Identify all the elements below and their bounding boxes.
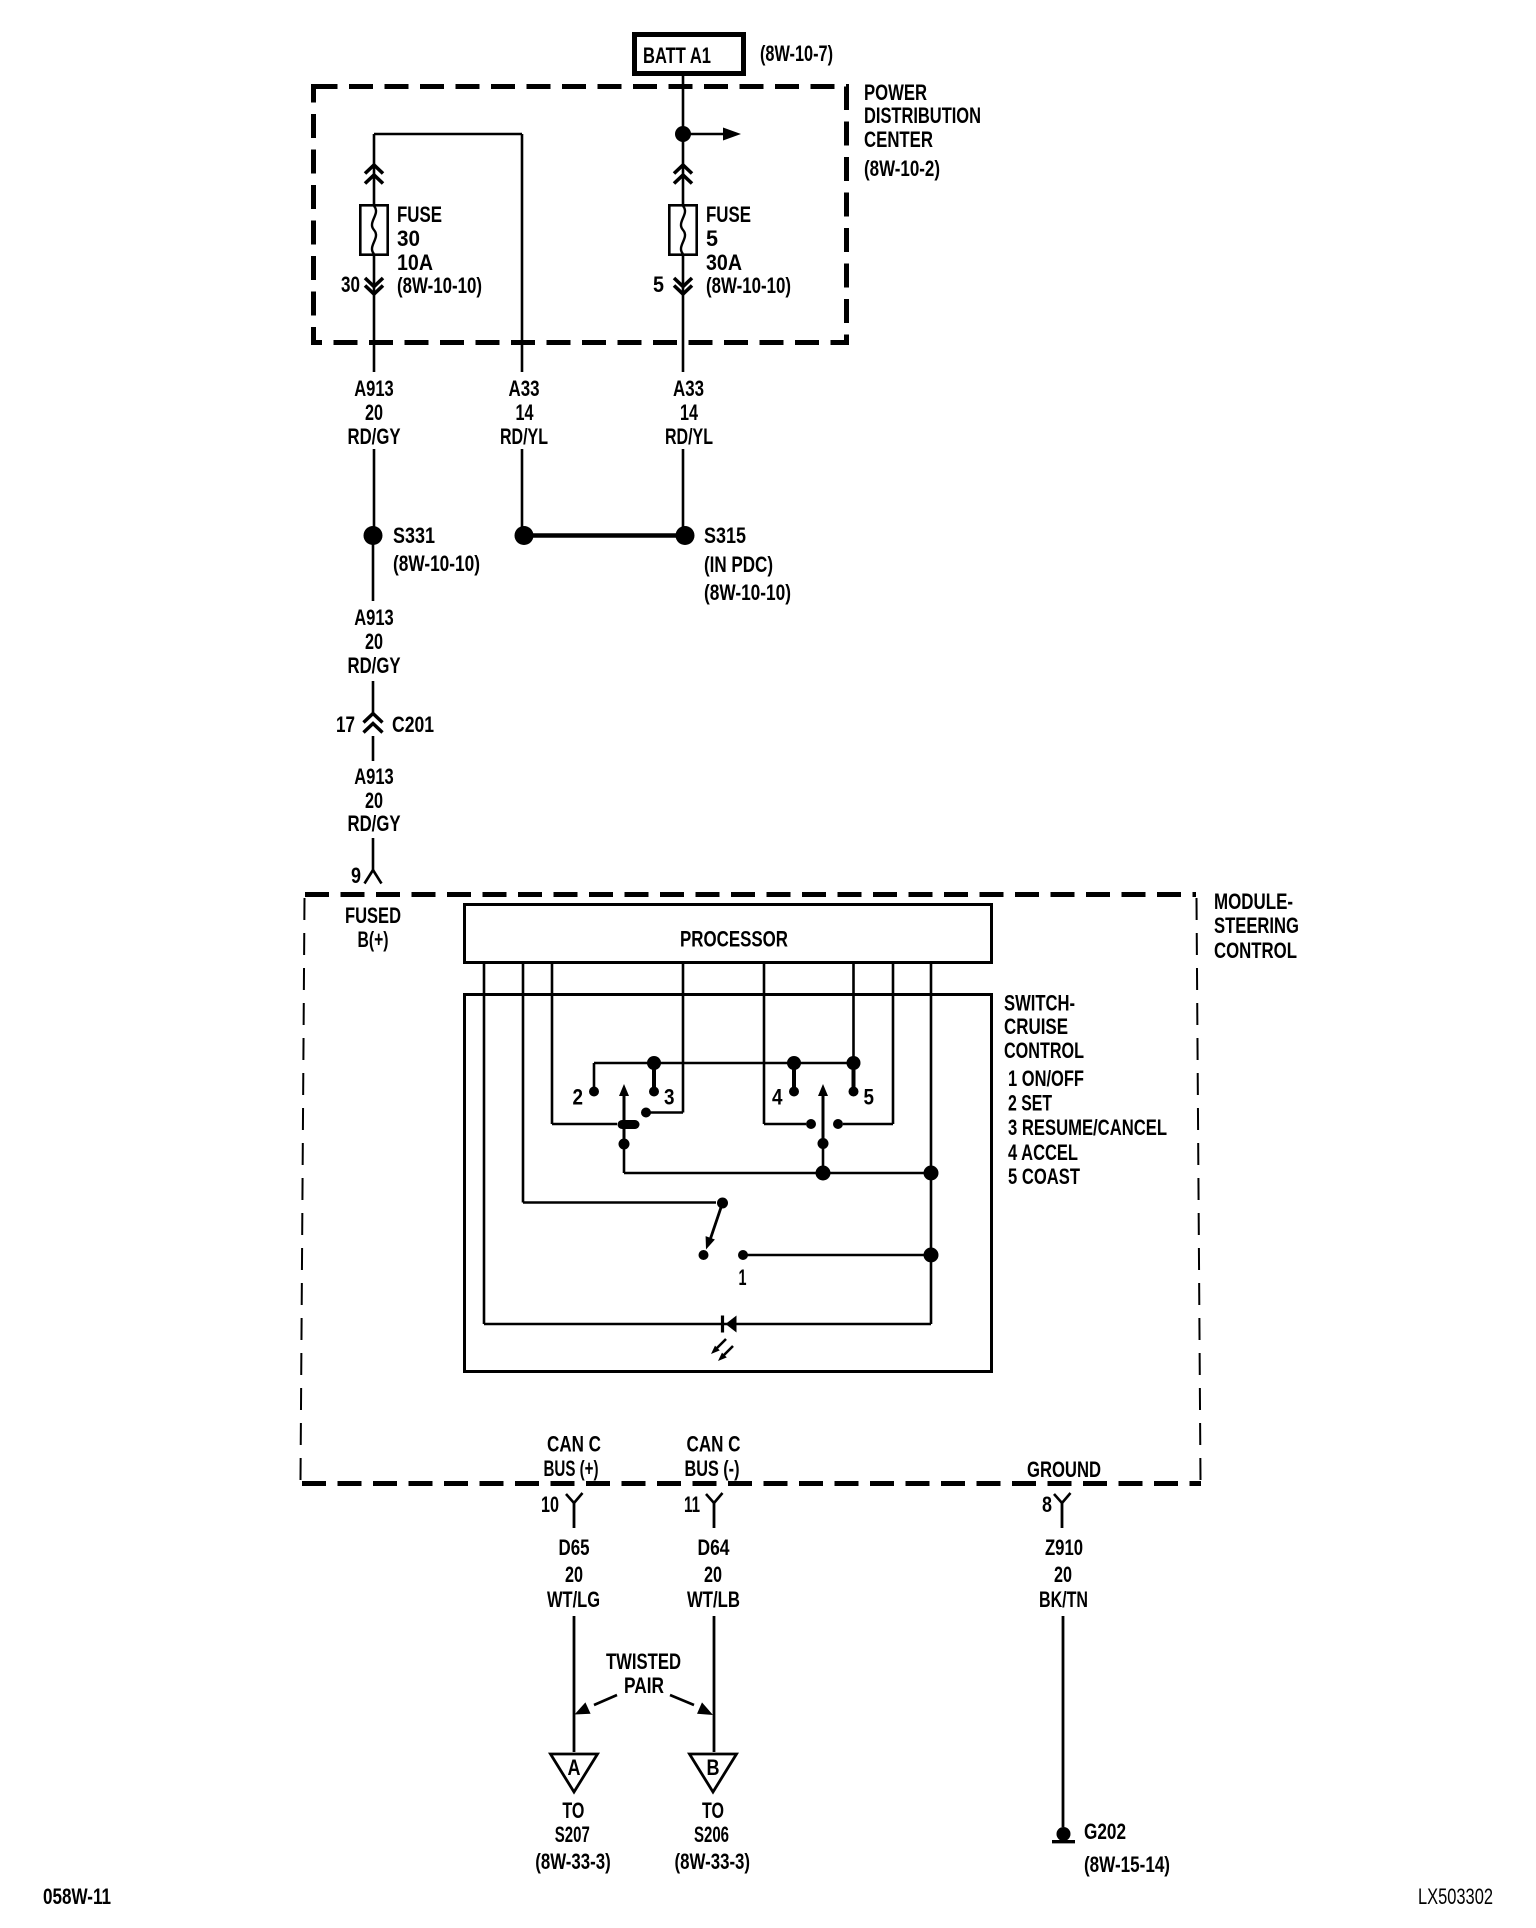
svg-text:14: 14 xyxy=(680,400,699,425)
label S315 (IN PDC) (8W-10-10) xyxy=(704,523,791,605)
svg-text:30A: 30A xyxy=(706,250,742,275)
wire on/off feed xyxy=(523,1201,716,1204)
wire down to splice S315 xyxy=(682,449,685,528)
svg-text:G202: G202 xyxy=(1084,1819,1126,1844)
wire on/off to return xyxy=(746,1254,931,1257)
svg-text:(8W-10-10): (8W-10-10) xyxy=(393,551,480,576)
wire below fuse 5 xyxy=(682,256,685,372)
svg-text:D65: D65 xyxy=(559,1535,590,1560)
svg-text:5: 5 xyxy=(653,272,664,297)
svg-text:2 SET: 2 SET xyxy=(1008,1091,1052,1116)
svg-text:FUSE: FUSE xyxy=(397,202,442,227)
svg-text:058W-11: 058W-11 xyxy=(43,1884,111,1909)
wire label A913 20 RD/GY (below C201) xyxy=(348,764,401,836)
svg-text:A: A xyxy=(568,1755,581,1780)
wire splice bus to S315 xyxy=(524,533,685,538)
svg-text:CONTROL: CONTROL xyxy=(1214,938,1297,963)
svg-text:CAN C: CAN C xyxy=(687,1432,741,1457)
svg-text:20: 20 xyxy=(704,1562,722,1587)
svg-text:20: 20 xyxy=(365,400,383,425)
svg-text:S206: S206 xyxy=(694,1822,729,1847)
accel contact terminal xyxy=(806,1119,816,1129)
svg-text:S315: S315 xyxy=(704,523,746,548)
svg-text:A913: A913 xyxy=(354,764,394,789)
wire switch return bus xyxy=(624,1172,931,1175)
wire accel/coast right feed xyxy=(843,1123,893,1126)
svg-text:10: 10 xyxy=(541,1492,559,1517)
label G202 (8W-15-14) xyxy=(1084,1819,1170,1877)
coast contact terminal xyxy=(833,1119,843,1129)
wire processor pin to accel/coast right contact xyxy=(892,964,895,1124)
twisted pair right arrow xyxy=(670,1695,713,1715)
wire contact 5 drop xyxy=(852,1063,856,1087)
svg-text:4 ACCEL: 4 ACCEL xyxy=(1008,1140,1078,1165)
wire CAN- down to triangle B xyxy=(713,1616,716,1752)
contact 4 terminal xyxy=(789,1087,799,1097)
fuse 5 value labels xyxy=(706,202,791,298)
module connector fork pin 8 xyxy=(1054,1493,1071,1528)
svg-text:(8W-10-10): (8W-10-10) xyxy=(704,580,791,605)
LED D1 diode xyxy=(723,1316,737,1333)
wire down to fuse 30 xyxy=(373,134,376,204)
wire contact 3 drop xyxy=(652,1063,656,1087)
fuse 5 (30A) xyxy=(669,205,696,254)
switch SW3 on/off arm arrow xyxy=(706,1203,723,1250)
svg-text:A913: A913 xyxy=(354,605,394,630)
wire processor pin to resume contact xyxy=(682,964,685,1113)
wire LED anode line xyxy=(484,1323,931,1326)
svg-text:20: 20 xyxy=(365,788,383,813)
svg-text:20: 20 xyxy=(1054,1562,1072,1587)
switch SW1 set/resume wiper bar xyxy=(618,1120,640,1129)
svg-text:5: 5 xyxy=(864,1085,875,1110)
svg-text:14: 14 xyxy=(516,400,535,425)
node return bus at SW2 xyxy=(816,1166,831,1181)
svg-text:BK/TN: BK/TN xyxy=(1039,1587,1088,1612)
svg-text:CENTER: CENTER xyxy=(864,127,933,152)
wire label A913 20 RD/GY (from fuse 30) xyxy=(348,376,401,449)
wire down to splice S331 xyxy=(373,449,376,527)
ground G202 symbol xyxy=(1052,1827,1075,1842)
svg-text:RD/YL: RD/YL xyxy=(665,424,713,449)
node on return line xyxy=(924,1248,939,1263)
label TO S207 (8W-33-3) xyxy=(535,1798,611,1874)
wire resume contact to processor xyxy=(649,1111,683,1114)
contact 3 terminal xyxy=(649,1087,659,1097)
wire accel/coast left feed xyxy=(764,1123,806,1126)
svg-text:TO: TO xyxy=(562,1798,584,1823)
svg-text:11: 11 xyxy=(684,1492,700,1517)
wire processor pin to common return xyxy=(930,964,933,1324)
node return bus to processor xyxy=(924,1166,939,1181)
svg-text:C201: C201 xyxy=(392,712,434,737)
wire SW2 arm to return bus xyxy=(822,1143,825,1173)
node CAN C BUS (-) label xyxy=(685,1432,741,1482)
switch SW2 accel/coast arm arrow xyxy=(818,1084,828,1142)
svg-text:MODULE-: MODULE- xyxy=(1214,889,1293,914)
node junction above contact 3 xyxy=(647,1056,661,1070)
svg-text:20: 20 xyxy=(565,1562,583,1587)
node FUSED B(+) xyxy=(345,903,401,952)
wire down to connector C201 xyxy=(372,681,375,713)
svg-text:5: 5 xyxy=(706,226,718,251)
wire label A33 14 RD/YL (from fuse 5) xyxy=(665,376,713,449)
splice S315 xyxy=(676,526,695,545)
svg-text:(8W-10-7): (8W-10-7) xyxy=(760,41,833,66)
wire below fuse 30 xyxy=(373,256,376,372)
label TO S206 (8W-33-3) xyxy=(675,1798,751,1874)
connector C201 chevrons pin 17 xyxy=(364,714,383,733)
svg-text:30: 30 xyxy=(397,226,420,251)
battery feed box BATT A1 xyxy=(635,35,744,74)
svg-text:RD/GY: RD/GY xyxy=(348,653,401,678)
svg-text:TWISTED: TWISTED xyxy=(606,1649,681,1674)
processor box U1 xyxy=(465,905,992,963)
svg-text:9: 9 xyxy=(351,863,361,888)
svg-text:LX503302: LX503302 xyxy=(1418,1884,1493,1909)
on/off lower contact xyxy=(699,1250,709,1260)
svg-text:CRUISE: CRUISE xyxy=(1004,1014,1068,1039)
chevrons below fuse 30 xyxy=(365,278,383,294)
svg-text:10A: 10A xyxy=(397,250,433,275)
wire processor pin to LED feed xyxy=(483,964,486,1324)
wire processor pin to coast node xyxy=(852,964,855,1058)
svg-text:FUSED: FUSED xyxy=(345,903,401,928)
module connector fork pin 11 xyxy=(706,1493,723,1528)
svg-text:STEERING: STEERING xyxy=(1214,913,1299,938)
wire processor pin to set/resume common xyxy=(551,964,554,1124)
svg-text:A33: A33 xyxy=(673,376,704,401)
svg-text:B(+): B(+) xyxy=(358,927,389,952)
node below SW1 wiper xyxy=(619,1139,630,1150)
wire top bus of switch contacts xyxy=(594,1062,854,1065)
svg-text:BUS (-): BUS (-) xyxy=(685,1456,740,1481)
svg-text:B: B xyxy=(707,1755,720,1780)
svg-text:CAN C: CAN C xyxy=(547,1432,601,1457)
svg-text:(8W-33-3): (8W-33-3) xyxy=(675,1849,751,1874)
svg-text:WT/LB: WT/LB xyxy=(687,1587,740,1612)
node junction above contact 5 xyxy=(847,1056,861,1070)
svg-text:D64: D64 xyxy=(698,1535,731,1560)
wire processor pin to on/off switch xyxy=(522,964,525,1203)
label TWISTED PAIR xyxy=(606,1649,681,1698)
wire below C201 xyxy=(372,736,375,761)
svg-text:A913: A913 xyxy=(354,376,394,401)
wire below S331 xyxy=(372,544,375,601)
wire label D65 20 WT/LG xyxy=(547,1535,600,1612)
wire label A913 20 RD/GY (below S331) xyxy=(348,605,401,678)
wire contact 4 drop xyxy=(792,1063,796,1087)
svg-text:PAIR: PAIR xyxy=(624,1673,664,1698)
node CAN C BUS (+) label xyxy=(544,1432,602,1482)
svg-text:8: 8 xyxy=(1042,1492,1052,1517)
svg-text:PROCESSOR: PROCESSOR xyxy=(680,927,788,952)
wire label A33 14 RD/YL (middle) xyxy=(500,376,548,449)
svg-text:RD/GY: RD/GY xyxy=(348,424,401,449)
module connector fork pin 10 xyxy=(566,1493,583,1528)
wire down to mid splice node xyxy=(521,449,524,528)
svg-text:S207: S207 xyxy=(555,1822,590,1847)
svg-text:WT/LG: WT/LG xyxy=(547,1587,600,1612)
svg-text:(8W-33-3): (8W-33-3) xyxy=(535,1849,611,1874)
fuse 30 (10A) xyxy=(360,205,387,254)
svg-text:DISTRIBUTION: DISTRIBUTION xyxy=(864,103,981,128)
svg-text:5 COAST: 5 COAST xyxy=(1008,1164,1080,1189)
power distribution center dashed box xyxy=(314,87,847,343)
on/off switch top contact xyxy=(717,1198,728,1209)
svg-text:20: 20 xyxy=(365,629,383,654)
svg-text:TO: TO xyxy=(702,1798,724,1823)
contact 5 terminal xyxy=(849,1087,859,1097)
twisted pair left arrow xyxy=(575,1695,618,1715)
label MODULE-STEERING CONTROL xyxy=(1214,889,1299,963)
svg-text:1: 1 xyxy=(739,1265,747,1290)
svg-text:(8W-15-14): (8W-15-14) xyxy=(1084,1852,1170,1877)
wire SW1 wiper to return bus xyxy=(623,1144,626,1173)
arrow to other circuits xyxy=(683,128,741,141)
svg-text:S331: S331 xyxy=(393,523,435,548)
resume/cancel contact terminal xyxy=(641,1108,651,1118)
svg-text:Z910: Z910 xyxy=(1045,1535,1083,1560)
chevrons above fuse 5 xyxy=(674,165,692,184)
svg-text:A33: A33 xyxy=(509,376,540,401)
off-page connector B xyxy=(690,1754,737,1792)
svg-text:(8W-10-2): (8W-10-2) xyxy=(864,156,940,181)
wire CAN+ down to triangle A xyxy=(573,1616,576,1752)
wire set/resume common feed xyxy=(552,1123,617,1126)
svg-text:17: 17 xyxy=(336,712,355,737)
label S331 (8W-10-10) xyxy=(393,523,480,576)
svg-text:30: 30 xyxy=(341,272,360,297)
wire down to module pin 9 xyxy=(372,838,375,871)
svg-text:3: 3 xyxy=(664,1085,675,1110)
chevrons above fuse 30 xyxy=(365,165,383,184)
junction node on batt feed xyxy=(675,126,691,142)
svg-text:4: 4 xyxy=(772,1085,783,1110)
chevrons below fuse 5 xyxy=(674,278,692,294)
splice node on A33 xyxy=(515,526,534,545)
on/off right contact xyxy=(738,1250,748,1260)
svg-text:SWITCH-: SWITCH- xyxy=(1004,991,1075,1016)
svg-text:GROUND: GROUND xyxy=(1027,1457,1101,1482)
label POWER DISTRIBUTION CENTER (8W-10-2) xyxy=(864,80,981,181)
svg-text:RD/YL: RD/YL xyxy=(500,424,548,449)
LED light emission arrows xyxy=(711,1339,733,1361)
splice S331 xyxy=(364,526,383,545)
wire bus bar to fuse 30 xyxy=(374,133,522,136)
wire ground down to G202 xyxy=(1062,1616,1065,1827)
off-page connector A xyxy=(551,1754,598,1792)
switch-cruise control box xyxy=(465,995,992,1372)
svg-text:BATT A1: BATT A1 xyxy=(643,43,711,68)
wire label Z910 20 BK/TN xyxy=(1039,1535,1088,1612)
svg-text:(8W-10-10): (8W-10-10) xyxy=(706,273,791,298)
wire junction to fuse 5 xyxy=(682,134,685,204)
svg-text:2: 2 xyxy=(573,1085,584,1110)
label SWITCH-CRUISE CONTROL legend xyxy=(1004,991,1167,1190)
contact 2 terminal xyxy=(589,1087,599,1097)
wire BATT A1 to PDC junction xyxy=(682,76,685,134)
svg-text:(IN PDC): (IN PDC) xyxy=(704,552,773,577)
svg-text:FUSE: FUSE xyxy=(706,202,751,227)
svg-text:(8W-10-10): (8W-10-10) xyxy=(397,273,482,298)
svg-text:1 ON/OFF: 1 ON/OFF xyxy=(1008,1066,1084,1091)
svg-text:CONTROL: CONTROL xyxy=(1004,1038,1084,1063)
svg-text:RD/GY: RD/GY xyxy=(348,811,401,836)
node junction above contact 4 xyxy=(787,1056,801,1070)
wire label D64 20 WT/LB xyxy=(687,1535,740,1612)
module connector fork pin 9 xyxy=(365,870,382,884)
svg-text:BUS (+): BUS (+) xyxy=(544,1456,599,1481)
module-steering control dashed outline xyxy=(301,895,1202,1484)
wire processor pin to accel/coast left contact xyxy=(763,964,766,1124)
wire contact 2 drop xyxy=(593,1063,596,1087)
svg-text:POWER: POWER xyxy=(864,80,927,105)
wire A33 middle drop xyxy=(521,134,524,372)
node below SW2 arm xyxy=(818,1138,829,1149)
switch SW1 set/resume arm arrow xyxy=(619,1084,629,1142)
fuse 30 value labels xyxy=(397,202,482,298)
svg-text:3 RESUME/CANCEL: 3 RESUME/CANCEL xyxy=(1008,1115,1167,1140)
